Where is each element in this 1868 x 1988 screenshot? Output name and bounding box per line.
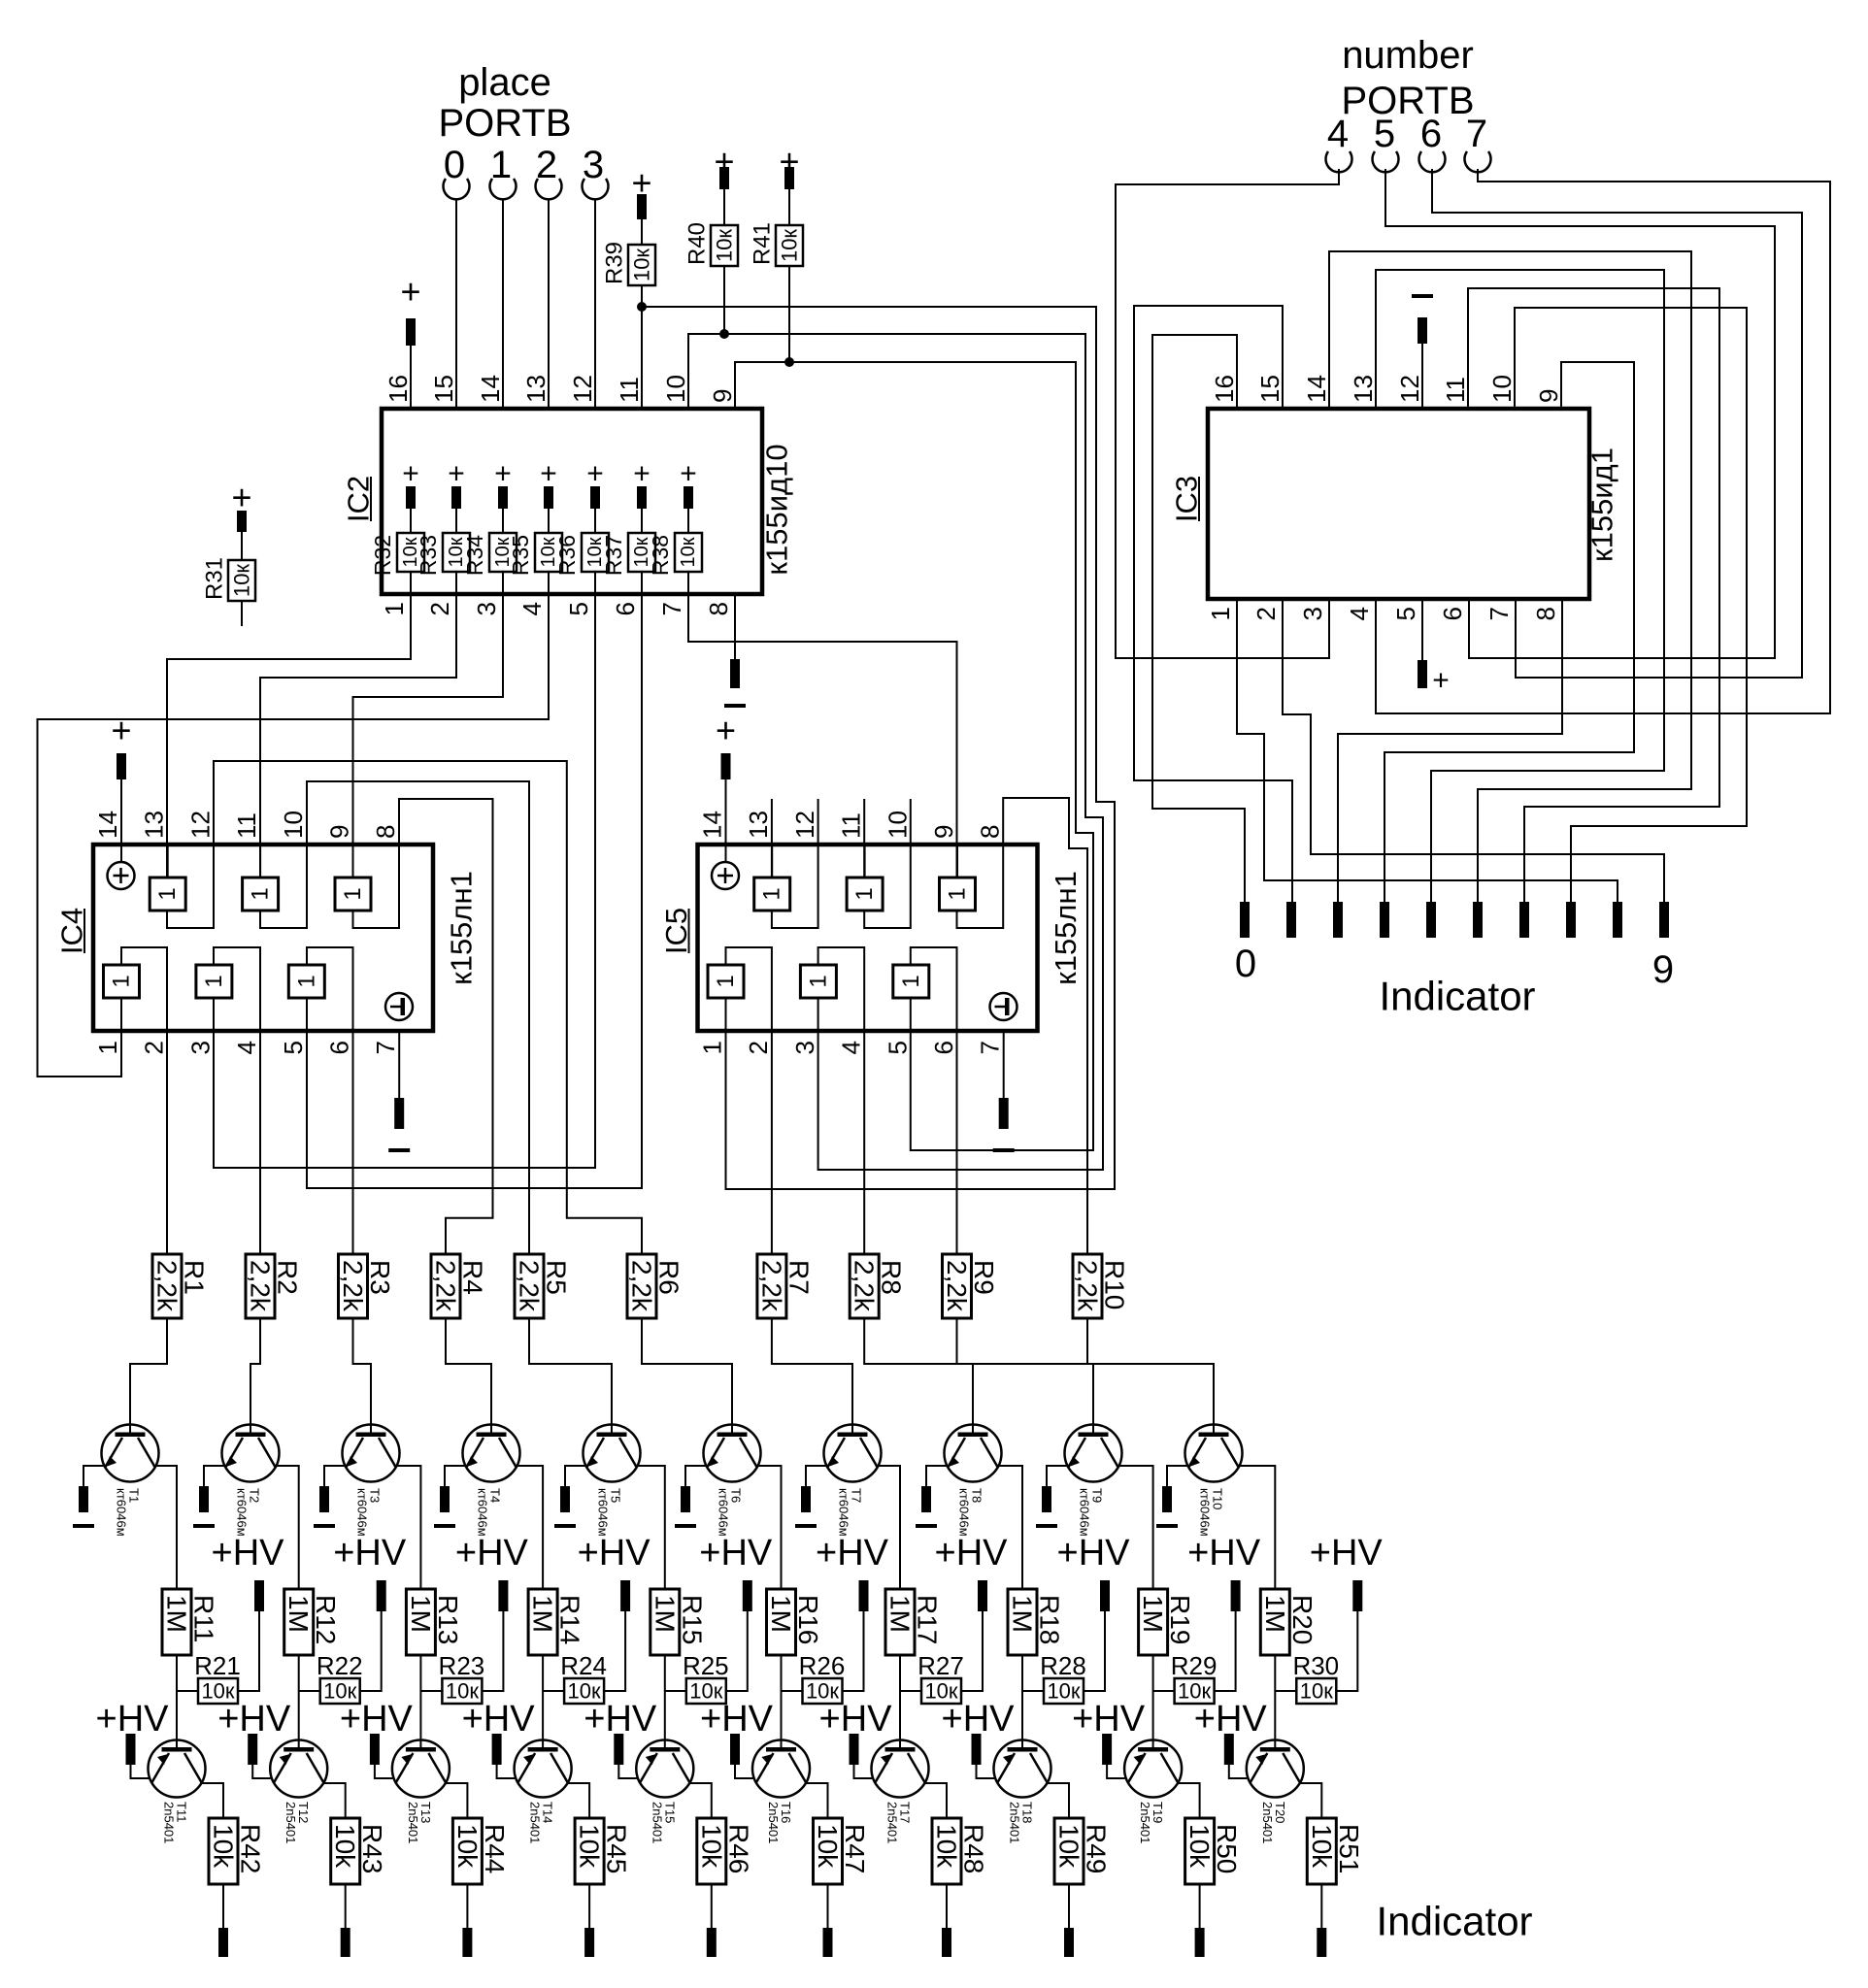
resistor R18 1M: [1008, 1589, 1037, 1655]
svg-text:2,2k: 2,2k: [850, 1260, 880, 1312]
svg-text:T16: T16: [779, 1802, 793, 1823]
resistor R10 2,2k: [1073, 1254, 1102, 1318]
svg-text:R5: R5: [542, 1260, 572, 1295]
inverter IC5.11 cell: [847, 878, 883, 911]
wire IC3 pin 5 to +: [1421, 599, 1423, 660]
svg-text:10к: 10к: [230, 564, 254, 597]
svg-text:13: 13: [140, 811, 169, 839]
node R39 junction: [637, 302, 647, 312]
wire R15 to T15 base: [664, 1655, 666, 1747]
wire R51 to output terminal: [1320, 1884, 1322, 1928]
svg-text:11: 11: [615, 377, 644, 403]
wire T4 emitter to minus: [445, 1466, 466, 1486]
resistor R8 2,2k: [850, 1254, 879, 1318]
minus terminal at T10: [1162, 1486, 1172, 1512]
wire R23 to base: [420, 1690, 442, 1692]
svg-text:+HV: +HV: [1194, 1699, 1268, 1739]
svg-text:6: 6: [929, 1041, 958, 1054]
wire T18 collector to R49: [1048, 1783, 1069, 1818]
resistor R5 2,2k: [515, 1254, 544, 1318]
transistor T11 2n5401: [149, 1740, 206, 1798]
transistor T2 kt6046m: [222, 1425, 280, 1482]
svg-text:R12: R12: [311, 1595, 341, 1644]
svg-text:7: 7: [1484, 607, 1514, 620]
terminal Indicator 5: [1473, 902, 1483, 938]
svg-text:4: 4: [837, 1041, 866, 1054]
svg-text:T2: T2: [248, 1488, 262, 1503]
svg-text:13: 13: [1349, 375, 1378, 403]
svg-text:R50: R50: [1212, 1824, 1242, 1873]
terminal Indicator 9: [1659, 902, 1669, 938]
svg-text:T12: T12: [296, 1802, 311, 1823]
svg-text:1: 1: [698, 1041, 727, 1054]
svg-text:6: 6: [611, 602, 640, 615]
wire PORTB 3 to IC2 pin 12: [594, 200, 596, 410]
svg-text:2n5401: 2n5401: [406, 1802, 420, 1843]
wire PORTB 7 to IC3 pin 4: [1376, 169, 1830, 713]
svg-text:R20: R20: [1287, 1595, 1318, 1644]
resistor R15 1M: [650, 1589, 680, 1655]
wire R30 to base: [1275, 1690, 1296, 1692]
svg-text:R27: R27: [917, 1651, 964, 1680]
wire R40 to node: [723, 266, 725, 334]
wire IC3 pin 14 to indicator 5: [1329, 251, 1691, 902]
svg-text:8: 8: [976, 825, 1005, 839]
svg-text:3: 3: [1298, 607, 1327, 620]
svg-text:T15: T15: [662, 1802, 677, 1823]
resistor R36 10k: [582, 533, 609, 572]
svg-text:+HV: +HV: [455, 1533, 529, 1574]
svg-text:2n5401: 2n5401: [650, 1802, 664, 1843]
wire +HV to T19 emitter: [1107, 1765, 1125, 1778]
svg-text:8: 8: [1531, 607, 1560, 620]
svg-text:T19: T19: [1151, 1802, 1165, 1823]
svg-text:+: +: [448, 458, 465, 490]
svg-text:place: place: [458, 61, 551, 104]
wire +HV to R29: [1215, 1611, 1236, 1691]
svg-text:1: 1: [109, 975, 135, 987]
wire IC2 pin 9 net to IC5 pin 5: [735, 362, 1093, 1150]
wire IC2 pin 8 to minus: [734, 594, 736, 659]
wire + to R33: [455, 509, 457, 533]
svg-text:кт6046м: кт6046м: [837, 1488, 851, 1537]
minus terminal at T6: [681, 1486, 690, 1512]
svg-text:14: 14: [698, 811, 727, 839]
svg-text:кт6046м: кт6046м: [717, 1488, 731, 1537]
wire IC5 pin 9 into inverter: [956, 845, 958, 878]
wire T20 collector to R51: [1300, 1783, 1321, 1818]
svg-text:10к: 10к: [678, 537, 699, 567]
svg-text:T1: T1: [127, 1488, 142, 1503]
wire PORTB 2 to IC2 pin 13: [548, 200, 550, 410]
wire T8 collector to R18: [998, 1466, 1022, 1589]
svg-text:к155лн1: к155лн1: [445, 871, 479, 985]
resistor R39 10k: [628, 245, 655, 285]
resistor R38 10k: [675, 533, 702, 572]
svg-text:кт6046м: кт6046м: [235, 1488, 250, 1537]
transistor T14 2n5401: [515, 1740, 572, 1798]
svg-text:R40: R40: [684, 222, 711, 265]
resistor R1 2,2k: [152, 1254, 182, 1318]
transistor T6 kt6046m: [704, 1425, 761, 1482]
svg-text:кт6046м: кт6046м: [1198, 1488, 1213, 1537]
inverter IC4.5 cell: [288, 965, 324, 998]
wire R3 to T3 base: [353, 1318, 372, 1434]
svg-text:1M: 1M: [528, 1595, 558, 1633]
svg-text:7: 7: [1466, 113, 1487, 155]
wire +HV to R30: [1336, 1611, 1357, 1691]
wire R32 to IC2 pin 1: [410, 572, 412, 594]
svg-text:2: 2: [140, 1041, 169, 1054]
svg-text:10к: 10к: [630, 248, 654, 282]
wire R37 to IC2 pin 6: [641, 572, 643, 594]
resistor R32 10k: [397, 533, 424, 572]
wire R19 to T19 base: [1152, 1655, 1154, 1747]
svg-text:2,2k: 2,2k: [756, 1260, 786, 1312]
svg-text:T7: T7: [850, 1488, 864, 1503]
svg-text:5: 5: [883, 1041, 912, 1054]
wire T15 collector to R46: [690, 1783, 712, 1818]
svg-text:7: 7: [371, 1041, 400, 1054]
wire + to R31: [241, 532, 243, 560]
wire IC2 pin 1 to IC4 pin 13: [167, 594, 411, 878]
wire + to IC4 pin 14: [120, 779, 122, 862]
wire IC3 pin 10 to indicator 7: [1515, 308, 1747, 902]
minus terminal at T9: [1042, 1486, 1051, 1512]
wire R33 to IC2 pin 2: [455, 572, 457, 594]
svg-text:+: +: [402, 458, 419, 490]
svg-text:1: 1: [759, 887, 785, 900]
svg-text:R43: R43: [357, 1824, 387, 1873]
svg-text:10k: 10k: [1184, 1824, 1215, 1869]
svg-text:10к: 10к: [713, 229, 737, 262]
wire PORTB 0 to IC2 pin 15: [455, 200, 457, 410]
svg-text:2: 2: [1251, 607, 1281, 620]
terminal indicator cathode 8: [1195, 1928, 1205, 1957]
svg-text:2,2k: 2,2k: [431, 1260, 461, 1312]
transistor T8 kt6046m: [945, 1425, 1002, 1482]
svg-text:к155лн1: к155лн1: [1049, 871, 1083, 985]
svg-text:5: 5: [564, 602, 593, 615]
svg-text:T6: T6: [729, 1488, 744, 1503]
svg-text:T10: T10: [1211, 1488, 1225, 1509]
wire IC4 pin 13 into inverter: [167, 845, 169, 878]
svg-text:+HV: +HV: [942, 1699, 1016, 1739]
svg-text:+HV: +HV: [700, 1699, 774, 1739]
resistor R20 1M: [1260, 1589, 1289, 1655]
wire R10 to T10 base: [1087, 1318, 1214, 1434]
svg-text:1: 1: [1206, 607, 1235, 620]
transistor T13 2n5401: [392, 1740, 450, 1798]
resistor R14 1M: [528, 1589, 557, 1655]
svg-text:2,2k: 2,2k: [627, 1260, 657, 1312]
wire +HV to T14 emitter: [497, 1765, 515, 1778]
svg-text:R51: R51: [1334, 1824, 1364, 1873]
svg-text:16: 16: [384, 375, 413, 403]
wire R25 to base: [665, 1690, 686, 1692]
wire +HV to T11 emitter: [131, 1765, 150, 1778]
power + terminal at IC3 pin 5: [1418, 660, 1427, 688]
svg-text:2n5401: 2n5401: [885, 1802, 900, 1843]
svg-text:кт6046м: кт6046м: [115, 1488, 129, 1537]
svg-text:10k: 10k: [209, 1824, 239, 1869]
svg-text:T20: T20: [1273, 1802, 1287, 1823]
svg-text:2,2k: 2,2k: [515, 1260, 545, 1312]
terminal Indicator 4: [1426, 902, 1436, 938]
wire IC5 pin 13 into inverter: [771, 845, 773, 878]
resistor R17 1M: [885, 1589, 915, 1655]
svg-text:R38: R38: [648, 535, 673, 576]
svg-text:1: 1: [201, 975, 227, 987]
wire R46 to output terminal: [711, 1884, 713, 1928]
svg-text:4: 4: [1327, 113, 1349, 155]
svg-text:T5: T5: [609, 1488, 623, 1503]
svg-text:2n5401: 2n5401: [528, 1802, 543, 1843]
svg-text:T11: T11: [175, 1802, 189, 1822]
terminal indicator cathode 3: [584, 1928, 594, 1957]
svg-text:+: +: [540, 458, 557, 490]
transistor T3 kt6046m: [343, 1425, 400, 1482]
wire IC5 pin 13 stub: [771, 799, 773, 878]
terminal Indicator 3: [1380, 902, 1389, 938]
svg-text:1M: 1M: [1138, 1595, 1168, 1633]
wire R29 to base: [1153, 1690, 1175, 1692]
svg-text:1: 1: [713, 975, 739, 987]
wire + to R35: [548, 509, 550, 533]
transistor T4 kt6046m: [463, 1425, 520, 1482]
wire R14 to T14 base: [542, 1655, 544, 1747]
wire IC2 pin 7 to IC5 pin 9: [688, 594, 957, 878]
svg-text:1: 1: [380, 602, 409, 615]
wire R17 to T17 base: [899, 1655, 901, 1747]
svg-text:0: 0: [1235, 943, 1256, 985]
svg-text:12: 12: [790, 811, 819, 839]
wire T11 collector to R42: [202, 1783, 223, 1818]
svg-text:2,2k: 2,2k: [152, 1260, 183, 1312]
svg-text:R45: R45: [602, 1824, 632, 1873]
wire IC4.1 inverter output to pin 2 and R1: [121, 947, 167, 1254]
svg-text:14: 14: [476, 375, 505, 403]
transistor T12 2n5401: [270, 1740, 327, 1798]
terminal indicator cathode 4: [707, 1928, 717, 1957]
resistor R16 1M: [767, 1589, 796, 1655]
wire IC3 pin 16 to indicator 0: [1152, 335, 1245, 902]
wire IC3 pin 13 to indicator 4: [1376, 270, 1664, 902]
svg-text:10: 10: [883, 811, 912, 839]
terminal Indicator 0: [1240, 902, 1250, 938]
inverter IC4.13 cell: [150, 878, 185, 911]
svg-text:1M: 1M: [162, 1595, 192, 1633]
terminal Indicator 7: [1566, 902, 1576, 938]
inverter IC4.11 cell: [243, 878, 279, 911]
wire R26 to base: [782, 1690, 803, 1692]
svg-text:2,2k: 2,2k: [246, 1260, 276, 1312]
svg-text:R6: R6: [654, 1260, 684, 1295]
resistor R2 2,2k: [246, 1254, 275, 1318]
svg-text:+HV: +HV: [816, 1533, 889, 1574]
wire + to R38: [687, 509, 689, 533]
svg-text:10: 10: [279, 811, 308, 839]
svg-text:+HV: +HV: [340, 1699, 414, 1739]
svg-text:R26: R26: [799, 1651, 846, 1680]
power pin symbol gnd inside IC4: [385, 993, 413, 1020]
wire T13 collector to R44: [446, 1783, 467, 1818]
resistor R47 10k: [814, 1818, 843, 1884]
svg-text:T17: T17: [898, 1802, 913, 1823]
svg-text:2,2k: 2,2k: [1073, 1260, 1103, 1312]
svg-text:R46: R46: [723, 1824, 753, 1873]
resistor R42 10k: [209, 1818, 238, 1884]
svg-text:Indicator: Indicator: [1379, 974, 1535, 1019]
svg-text:2,2k: 2,2k: [338, 1260, 368, 1312]
wire +HV to R27: [961, 1611, 983, 1691]
wire T5 collector to R15: [637, 1466, 665, 1589]
svg-text:PORTB: PORTB: [1341, 80, 1474, 122]
wire + to R37: [641, 509, 643, 533]
minus terminal at T7: [801, 1486, 811, 1512]
wire IC2 pin 2 to IC4 pin 11: [260, 594, 456, 878]
minus terminal at IC5 pin 7: [999, 1098, 1009, 1129]
wire IC4.3 inverter output to pin 4 and R2: [214, 947, 260, 1254]
inverter IC5.9 cell: [940, 878, 976, 911]
svg-text:к155ид1: к155ид1: [1585, 447, 1619, 562]
svg-text:1M: 1M: [650, 1595, 680, 1633]
resistor R51 10k: [1307, 1818, 1336, 1884]
wire IC3 pin 2 to indicator 9: [1283, 599, 1664, 902]
svg-text:R25: R25: [683, 1651, 729, 1680]
wire +HV to R21: [238, 1611, 259, 1691]
svg-text:Indicator: Indicator: [1376, 1899, 1532, 1944]
svg-text:R8: R8: [877, 1260, 907, 1295]
wire R49 to output terminal: [1068, 1884, 1070, 1928]
svg-text:10к: 10к: [778, 229, 802, 262]
resistor R19 1M: [1139, 1589, 1168, 1655]
terminal indicator cathode 2: [462, 1928, 472, 1957]
svg-text:4: 4: [232, 1041, 261, 1054]
wire IC2 pin 3 to IC4 pin 9: [353, 594, 504, 878]
svg-text:4: 4: [1345, 607, 1374, 620]
wire PORTB 1 to IC2 pin 14: [502, 200, 504, 410]
svg-text:12: 12: [568, 375, 597, 403]
svg-text:11: 11: [232, 812, 261, 839]
wire R45 to output terminal: [588, 1884, 590, 1928]
inverter IC5.5 cell: [893, 965, 929, 998]
svg-text:R10: R10: [1100, 1260, 1130, 1309]
svg-text:R7: R7: [784, 1260, 814, 1295]
minus terminal at T4: [440, 1486, 450, 1512]
svg-text:+HV: +HV: [578, 1533, 651, 1574]
wire T6 collector to R16: [757, 1466, 782, 1589]
svg-text:15: 15: [429, 375, 458, 403]
svg-text:2,2k: 2,2k: [942, 1260, 972, 1312]
svg-text:кт6046м: кт6046м: [1078, 1488, 1092, 1537]
wire +HV to R23: [482, 1611, 503, 1691]
svg-text:10k: 10k: [813, 1824, 843, 1869]
wire + to R36: [594, 509, 596, 533]
wire IC2 pin 4 to IC4 pin 1 loop: [38, 594, 550, 1077]
wire +HV to R22: [360, 1611, 382, 1691]
resistor R31 10k: [228, 560, 255, 601]
wire R1 to T1 base: [130, 1318, 167, 1434]
wire T1 collector to R11: [155, 1466, 177, 1589]
wire + to R39: [641, 219, 643, 245]
svg-text:+HV: +HV: [462, 1699, 536, 1739]
wire + to IC2 pin 16: [410, 346, 412, 409]
svg-text:R37: R37: [601, 535, 626, 576]
inverter IC4.9 cell: [335, 878, 371, 911]
svg-text:T18: T18: [1020, 1802, 1035, 1823]
wire IC3 pin 8 to indicator 2: [1338, 599, 1562, 902]
wire +HV to T17 emitter: [854, 1765, 873, 1778]
wire IC5.5 inverter output to pin 6 and R9: [911, 947, 957, 1254]
svg-text:+: +: [716, 711, 736, 750]
transistor T19 2n5401: [1124, 1740, 1182, 1798]
wire IC4 pin 11 into inverter: [259, 845, 261, 878]
wire +HV to R26: [843, 1611, 864, 1691]
svg-text:R17: R17: [913, 1595, 943, 1644]
wire IC5.3 inverter output to pin 4 and R8: [818, 947, 865, 1254]
svg-text:+HV: +HV: [1072, 1699, 1146, 1739]
wire R5 to T5 base: [529, 1318, 612, 1434]
svg-text:+: +: [633, 458, 650, 490]
wire R24 to base: [543, 1690, 564, 1692]
resistor R9 2,2k: [943, 1254, 972, 1318]
svg-text:R1: R1: [180, 1260, 210, 1295]
wire T19 collector to R50: [1179, 1783, 1200, 1818]
svg-text:3: 3: [472, 602, 501, 615]
svg-text:R13: R13: [433, 1595, 463, 1644]
wire R38 to IC2 pin 7: [687, 572, 689, 594]
svg-text:R9: R9: [969, 1260, 999, 1295]
minus terminal at IC3 pin 12: [1412, 294, 1433, 298]
svg-text:R49: R49: [1082, 1824, 1112, 1873]
svg-text:10к: 10к: [1300, 1679, 1333, 1704]
wire IC2 pin 10 net to IC5 pin 3: [688, 334, 1103, 1170]
svg-text:1: 1: [248, 887, 274, 900]
wire IC4.9 inverter output via pin 8 to R4: [353, 799, 493, 1254]
wire IC4.5 inverter output to pin 6 and R3: [307, 947, 353, 1254]
transistor T9 kt6046m: [1065, 1425, 1122, 1482]
svg-text:2n5401: 2n5401: [1008, 1802, 1022, 1843]
svg-text:1M: 1M: [284, 1595, 314, 1633]
svg-text:11: 11: [1441, 377, 1470, 403]
wire +HV to T18 emitter: [977, 1765, 995, 1778]
svg-text:1M: 1M: [766, 1595, 796, 1633]
svg-text:R36: R36: [554, 535, 580, 576]
svg-text:кт6046м: кт6046м: [957, 1488, 972, 1537]
svg-text:3: 3: [790, 1041, 819, 1054]
wire T2 collector to R12: [276, 1466, 299, 1589]
inverter IC5.1 cell: [708, 965, 744, 998]
wire R20 to T20 base: [1274, 1655, 1276, 1747]
svg-text:4: 4: [517, 602, 547, 615]
wire R6 to T6 base: [642, 1318, 732, 1434]
resistor R45 10k: [575, 1818, 604, 1884]
svg-text:T9: T9: [1090, 1488, 1105, 1503]
resistor R44 10k: [452, 1818, 482, 1884]
terminal indicator cathode 6: [942, 1928, 951, 1957]
wire R22 to base: [299, 1690, 320, 1692]
wire R43 to output terminal: [345, 1884, 347, 1928]
minus terminal at T1: [79, 1486, 88, 1512]
resistor R33 10k: [443, 533, 470, 572]
wire IC3 pin 9 to indicator 3: [1384, 362, 1634, 902]
wire minus to IC3 pin 12: [1421, 344, 1423, 409]
svg-text:+HV: +HV: [819, 1699, 893, 1739]
wire IC5.11 inverter output to pin 10 stub: [864, 799, 911, 928]
wire T9 collector to R19: [1118, 1466, 1153, 1589]
svg-text:R29: R29: [1171, 1651, 1218, 1680]
